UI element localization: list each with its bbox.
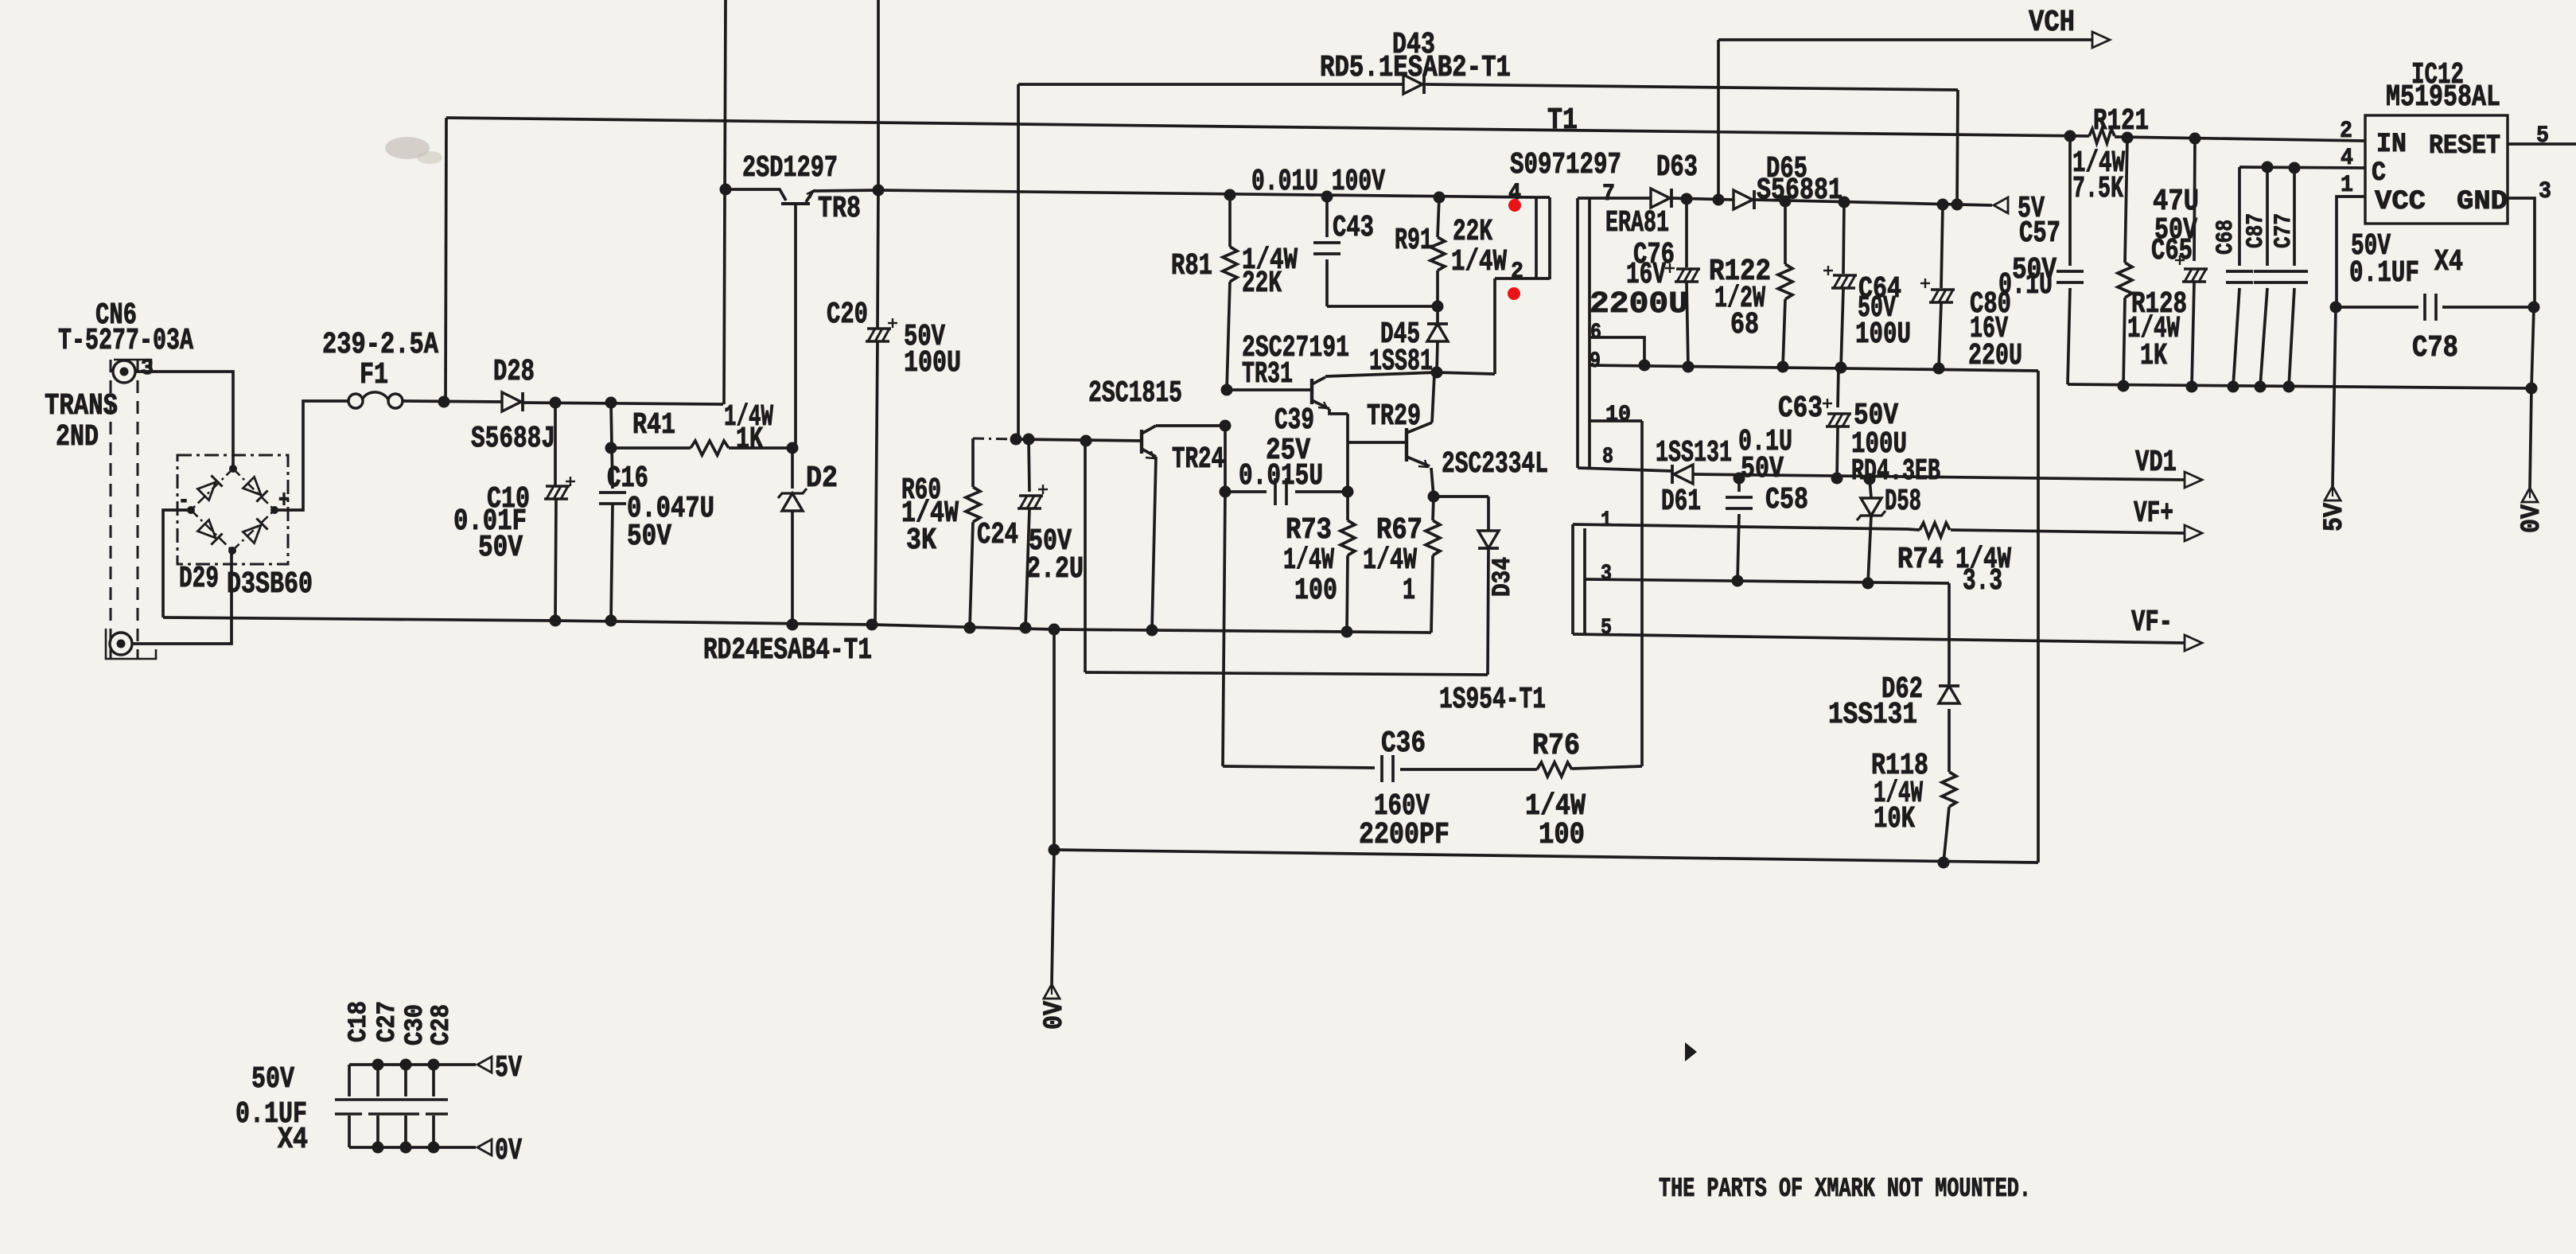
capacitor C43 0.01U 100V [1325, 197, 1329, 237]
node D43 branch [1010, 434, 1022, 446]
svg-text:C43: C43 [1333, 211, 1374, 245]
bridge diamond wires [191, 469, 233, 510]
svg-text:C63: C63 [1778, 391, 1823, 426]
svg-text:100U: 100U [904, 346, 961, 380]
svg-text:3: 3 [141, 356, 154, 381]
svg-text:1K: 1K [736, 423, 763, 457]
svg-text:VCC: VCC [2375, 187, 2426, 217]
svg-text:C: C [2372, 158, 2386, 189]
svg-text:1SS131: 1SS131 [1656, 436, 1732, 470]
svg-text:1/4W: 1/4W [1283, 543, 1334, 578]
capacitor C16 0.047U 50V [611, 403, 613, 489]
arrow VD1 [2185, 472, 2202, 488]
node C43 top [1321, 191, 1333, 203]
node bank b1 [372, 1142, 384, 1154]
node C16/R41 [605, 397, 617, 409]
arrow 0V down [2522, 488, 2538, 502]
node rail D2 [787, 619, 799, 631]
wire T1 pin7 [1578, 197, 1651, 200]
wire T1 pin5 / VF- line [1573, 634, 2185, 643]
wire pin3 line corner down [1948, 583, 1951, 684]
capacitor C68 [2238, 167, 2241, 266]
svg-text:3: 3 [1601, 562, 1612, 586]
svg-text:C77: C77 [2271, 213, 2298, 248]
node rail R122 [1777, 361, 1789, 373]
wire TR31 collector to D45 node [1325, 372, 1437, 376]
wire bridge minus to 0V rail [163, 510, 191, 617]
svg-text:68: 68 [1730, 308, 1759, 342]
bank plates top [335, 1098, 448, 1100]
svg-text:1SS131: 1SS131 [1828, 698, 1917, 732]
svg-text:F1: F1 [360, 358, 388, 392]
wire 0V arrow stem right [2530, 388, 2531, 488]
svg-text:C39: C39 [1274, 403, 1314, 438]
node TR31 base / R81 [1221, 384, 1233, 396]
resistor R74 3.3 1/4W on VF+ line [1908, 529, 1920, 530]
node R41 tap [605, 442, 617, 454]
wire D34 to TR24 base column [1085, 672, 1488, 675]
svg-text:10: 10 [1605, 403, 1631, 427]
node TR29 emitter / R67 [1428, 491, 1440, 503]
transformer T1 core / secondary winding upper [1576, 198, 1579, 468]
node pin6/pin9 [1639, 360, 1651, 372]
svg-text:C36: C36 [1381, 726, 1426, 761]
node bridge left [187, 506, 195, 514]
wire riser x=1104 (off-page top) [877, 0, 880, 190]
wire TR29 collector to pin2 node [1434, 372, 1437, 374]
svg-text:R121: R121 [2093, 104, 2149, 138]
svg-text:220U: 220U [1968, 339, 2022, 373]
node rail C24 [1020, 622, 1032, 634]
svg-text:D29: D29 [179, 562, 219, 596]
wire D28 to TR8 riser [523, 403, 723, 404]
svg-text:2.2U: 2.2U [1026, 552, 1084, 586]
svg-text:X4: X4 [278, 1123, 308, 1157]
svg-text:50V: 50V [627, 520, 671, 554]
svg-text:R91: R91 [1395, 224, 1433, 258]
bridge diode D29b [243, 477, 267, 501]
bridge diode D29d [243, 518, 267, 543]
svg-text:2200U: 2200U [1590, 287, 1688, 321]
svg-text:D34: D34 [1488, 557, 1517, 597]
node R122 top [1780, 196, 1792, 208]
node C77 top [2289, 162, 2301, 174]
svg-text:50V: 50V [478, 531, 523, 565]
node D43 join [1951, 199, 1963, 211]
wire D63 to D65 [1671, 198, 1734, 200]
node C24 top [1023, 434, 1035, 446]
wire TR8 to T1 pin4 [878, 190, 1536, 197]
node C10 [550, 397, 562, 409]
connector CN6 T-5277-03A [110, 360, 112, 659]
node C39 right / R73 top [1342, 486, 1354, 498]
capacitor C87 [2266, 167, 2269, 266]
svg-text:1K: 1K [2140, 339, 2167, 373]
wire fuse to D28 [403, 401, 502, 402]
svg-text:C87: C87 [2243, 213, 2270, 248]
svg-text:C18: C18 [344, 1001, 373, 1042]
svg-text:1: 1 [2341, 172, 2353, 199]
svg-text:22K: 22K [1453, 215, 1492, 249]
node bottom run left [1049, 844, 1060, 856]
svg-text:RD5.1ESAB2-T1: RD5.1ESAB2-T1 [1320, 51, 1511, 85]
diode D61 1SS131 [1671, 465, 1674, 484]
wire VCH riser [1717, 40, 1720, 200]
svg-text:C68: C68 [2212, 220, 2239, 255]
svg-text:2ND: 2ND [56, 420, 99, 454]
resistor R60 3K 1/4W [971, 438, 975, 487]
svg-text:5V: 5V [2320, 502, 2350, 532]
node rail C64/C63 [1835, 362, 1847, 374]
svg-text:8: 8 [1602, 445, 1613, 469]
capacitor C10 0.01F 50V [554, 403, 557, 485]
node bridge right [270, 506, 278, 514]
svg-text:C20: C20 [827, 298, 868, 332]
wire IC12 pin3 GND down [2508, 198, 2535, 307]
transistor TR24 2SC1815 [1140, 430, 1143, 454]
svg-text:3: 3 [2539, 178, 2551, 205]
node rail TR24 emitter [1146, 625, 1158, 637]
node bridge top [229, 465, 237, 473]
wire D43 top run [1018, 83, 1403, 86]
wire riser to top rail [446, 118, 446, 402]
wire 0V rail primary [163, 617, 1431, 633]
node C76 top [1681, 193, 1693, 205]
phase dot pin2 (red) [1508, 287, 1520, 300]
svg-text:1: 1 [1601, 508, 1612, 533]
fuse F1 239-2.5A [348, 394, 363, 408]
wire base row [1016, 439, 1142, 441]
mark small triangle [1685, 1042, 1697, 1061]
svg-text:THE PARTS OF XMARK NOT MOUNTED: THE PARTS OF XMARK NOT MOUNTED. [1659, 1174, 2031, 1205]
wire 0V drop to bottom run [1053, 629, 1056, 850]
wire T1 pin8 [1578, 468, 1672, 471]
wire R76 to T1 pin10 [1640, 421, 1644, 766]
svg-text:C24: C24 [977, 518, 1018, 552]
svg-text:RD4.3EB: RD4.3EB [1851, 454, 1940, 489]
svg-text:R73: R73 [1286, 513, 1332, 547]
node C58 bottom on pin3 line [1732, 575, 1744, 587]
capacitor C20 100U 50V [877, 190, 878, 328]
node main rail / top feed [438, 396, 450, 408]
svg-text:1S954-T1: 1S954-T1 [1439, 683, 1546, 717]
node rail C68 [2228, 381, 2239, 393]
node C65 top [2189, 133, 2201, 145]
capacitor C63 0.1U 50V [1838, 368, 1839, 407]
svg-text:1/4W: 1/4W [1451, 245, 1507, 279]
wire IC12 pin4 row [2239, 167, 2365, 168]
svg-text:0.01U 100V: 0.01U 100V [1251, 165, 1385, 199]
svg-text:2SD1297: 2SD1297 [742, 151, 838, 185]
wire T1 pin1 / VF+ line [1573, 524, 1908, 529]
svg-text:0.1UF: 0.1UF [2349, 256, 2419, 290]
svg-text:C78: C78 [2412, 331, 2458, 365]
node rail C10 [550, 615, 562, 627]
svg-text:RESET: RESET [2429, 131, 2500, 162]
arrow VCH [2092, 32, 2110, 48]
zener diode D2 RD24ESAB4-T1 [791, 448, 794, 489]
node D58 bottom on pin3 line [1862, 578, 1874, 590]
node bank b3 [428, 1142, 440, 1154]
resistor R41 1K 1/4W [611, 446, 691, 450]
capacitor C39 0.015U 25V [1225, 490, 1267, 493]
svg-text:R41: R41 [632, 408, 675, 442]
svg-text:0.1U: 0.1U [1998, 268, 2053, 302]
svg-text:R76: R76 [1532, 729, 1580, 763]
wire D65 to 5V arrow [1754, 200, 1992, 205]
svg-text:5V: 5V [495, 1051, 522, 1085]
svg-text:GND: GND [2457, 187, 2508, 217]
svg-text:TR24: TR24 [1172, 442, 1224, 477]
svg-text:2SC1815: 2SC1815 [1088, 376, 1182, 411]
node C78 right [2528, 302, 2540, 313]
capacitor bank bottom wire [349, 1146, 476, 1149]
node R128 top [2122, 132, 2134, 144]
node rail pin3 [2526, 383, 2538, 395]
svg-text:3K: 3K [906, 524, 936, 558]
resistor R122 68 1/2W [1784, 201, 1787, 264]
wire T1 pin10 [1590, 419, 1642, 423]
wire 0V arrow stem [1052, 850, 1054, 984]
svg-text:TRANS: TRANS [45, 389, 118, 423]
bridge diode D29a [197, 475, 222, 500]
node R91/C43/D45 [1432, 301, 1444, 313]
resistor R76 100 1/4W [1537, 762, 1572, 777]
svg-text:1: 1 [1403, 574, 1415, 608]
svg-text:100U: 100U [1855, 317, 1911, 352]
svg-text:9: 9 [1590, 349, 1601, 374]
arrow 5V down [2325, 486, 2341, 500]
wire riser x=912 (off-page top) [724, 0, 726, 404]
svg-text:R81: R81 [1171, 249, 1212, 283]
wire bridge plus to fuse [274, 401, 348, 510]
wire TR31 base [1227, 388, 1312, 391]
arrow VF+ [2185, 525, 2202, 541]
arrow 0V bank [477, 1139, 492, 1155]
svg-text:50V: 50V [251, 1062, 294, 1096]
svg-text:3.3: 3.3 [1963, 564, 2002, 598]
svg-text:1/4W: 1/4W [1363, 543, 1417, 578]
resistor R118 10K 1/4W [1948, 709, 1951, 772]
svg-text:2SC2334L: 2SC2334L [1442, 447, 1548, 481]
phase dot pin4 (red) [1508, 199, 1521, 212]
diode D45 1SS81 [1436, 306, 1439, 323]
node C80 top [1937, 199, 1949, 211]
node TR8 base [720, 184, 732, 196]
svg-text:5: 5 [2536, 123, 2549, 150]
diode D28 S5688J [502, 392, 521, 411]
transistor TR29 2SC2334L [1405, 428, 1408, 461]
svg-text:2: 2 [1511, 259, 1523, 286]
node rail C16 [605, 615, 617, 627]
wire D61 to VD1 [1693, 474, 2185, 480]
svg-text:C28: C28 [426, 1004, 456, 1046]
capacitor C64 100U 50V [1843, 202, 1844, 274]
node bank t1 [372, 1059, 384, 1071]
resistor R81 22K 1/4W [1228, 195, 1232, 247]
wire R81 column to C39 [1224, 426, 1227, 488]
svg-text:C58: C58 [1765, 483, 1808, 517]
node bank t2 [400, 1059, 412, 1071]
wire bottom 0V run [1054, 850, 2038, 863]
svg-text:VF+: VF+ [2134, 497, 2173, 531]
svg-text:2: 2 [2340, 118, 2352, 145]
svg-text:RD24ESAB4-T1: RD24ESAB4-T1 [703, 633, 872, 668]
capacitor C30 [404, 1065, 407, 1096]
node bank t3 [428, 1059, 440, 1071]
svg-text:0V: 0V [2517, 504, 2547, 533]
wire CN6 pin3 to bridge top [135, 372, 233, 469]
svg-text:T1: T1 [1547, 103, 1578, 138]
wire 0V rail IC12 section [2068, 384, 2531, 388]
svg-text:C30: C30 [400, 1004, 430, 1046]
node rail C76 [1683, 361, 1695, 373]
wire TR29e to D34 [1434, 495, 1488, 498]
svg-text:D3SB60: D3SB60 [227, 567, 313, 602]
svg-text:C57: C57 [2019, 216, 2060, 251]
svg-text:22K: 22K [1242, 267, 1282, 301]
wire TR24 collector link [1156, 424, 1225, 427]
svg-text:R74: R74 [1897, 543, 1944, 577]
svg-text:7.5K: 7.5K [2072, 172, 2123, 206]
svg-text:7: 7 [1602, 181, 1615, 208]
svg-text:D28: D28 [493, 355, 535, 389]
node rail R128 [2118, 380, 2130, 392]
wire CN6 bottom pin to bridge bottom [132, 551, 232, 644]
resistor R91 22K 1/4W [1438, 197, 1439, 237]
node rail R60 [964, 622, 976, 634]
node D45/TR29c/T1 pin2 [1431, 367, 1443, 379]
svg-text:VD1: VD1 [2135, 446, 2177, 480]
node TR8 collector / C20 [873, 185, 885, 197]
svg-text:T-5277-03A: T-5277-03A [58, 324, 193, 358]
svg-text:4: 4 [2341, 145, 2353, 172]
svg-text:D58: D58 [1885, 485, 1921, 519]
svg-text:ERA81: ERA81 [1605, 206, 1669, 240]
svg-text:M51958AL: M51958AL [2386, 80, 2500, 115]
svg-text:TR29: TR29 [1367, 399, 1421, 434]
diode D63 ERA81 [1651, 189, 1670, 208]
svg-text:6: 6 [1590, 321, 1601, 345]
node D58 top [1864, 473, 1876, 485]
diode D62 1SS131 [1939, 684, 1959, 687]
svg-text:C65: C65 [2151, 234, 2193, 268]
zener diode D58 RD4.3EB [1870, 479, 1871, 497]
transistor TR8 2SD1297 [726, 189, 786, 201]
wire C36 row [1223, 766, 1375, 768]
capacitor C80 220U 16V [1941, 204, 1943, 288]
svg-text:D61: D61 [1661, 485, 1701, 519]
node rail C65 [2186, 381, 2198, 393]
svg-text:50V: 50V [1741, 452, 1784, 486]
svg-text:D63: D63 [1656, 150, 1698, 185]
arrow 5V secondary [1994, 197, 2008, 213]
node R118 bottom [1938, 857, 1950, 869]
node C87 top [2262, 162, 2274, 173]
resistor R128 1K 1/4W [2125, 138, 2127, 263]
node C39 left [1220, 486, 1232, 498]
wire TR31 emitter / R73 column [1329, 409, 1348, 414]
capacitor C77 [2293, 168, 2296, 266]
diode D34 1S954-T1 [1487, 497, 1490, 530]
arrow 5V bank [477, 1057, 492, 1073]
node rail C80 [1933, 363, 1945, 375]
capacitor C18 [348, 1065, 351, 1096]
capacitor C24 2.2U 50V [1029, 439, 1029, 492]
wire base row dashdot [973, 438, 1016, 439]
svg-text:S0971297: S0971297 [1510, 148, 1621, 182]
transistor TR31 2SC27191 [1310, 379, 1313, 404]
svg-text:100: 100 [1294, 574, 1337, 608]
capacitor C57 0.1U 50V [2068, 136, 2072, 266]
transformer T1 secondary winding lower [1571, 524, 1574, 634]
svg-text:C27: C27 [372, 1001, 402, 1042]
IC U12 M51958AL box [2365, 115, 2508, 224]
resistor R67 1 1/4W [1433, 497, 1434, 520]
svg-text:C16: C16 [607, 461, 648, 496]
transformer T1 primary winding [1536, 196, 1550, 199]
svg-text:S5688J: S5688J [471, 422, 555, 456]
bridge rectifier D29 D3SB60 outline [177, 455, 288, 564]
wire T1 pin6 [1590, 337, 1644, 365]
wire IC12 pin1 VCC down [2337, 197, 2365, 307]
svg-text:X4: X4 [2434, 245, 2463, 279]
capacitor C76 2200U 16V [1685, 199, 1688, 267]
capacitor C65 47U 50V [2194, 138, 2195, 261]
node C78 left [2330, 302, 2342, 313]
wire IC12 pin5 RESET out [2508, 142, 2576, 146]
wire T1 pin3 line [1585, 579, 1949, 583]
svg-text:VCH: VCH [2029, 6, 2075, 40]
node VCH tap [1713, 194, 1725, 206]
svg-text:TR31: TR31 [1242, 357, 1293, 391]
diode D43 RD5.1ESAB2-T1 [1403, 75, 1422, 94]
diode D65 S56881 [1734, 190, 1753, 209]
wire secondary common down [2037, 371, 2040, 863]
svg-text:R67: R67 [1376, 513, 1422, 547]
svg-text:0V: 0V [495, 1134, 522, 1168]
svg-text:IN: IN [2376, 130, 2407, 160]
wire TR29 base [1348, 441, 1407, 444]
svg-text:239-2.5A: 239-2.5A [322, 328, 438, 362]
svg-text:10K: 10K [1874, 802, 1915, 836]
wire R121 to IC12 pin2 [2115, 137, 2365, 141]
node TR24 base column [1080, 435, 1092, 447]
node rail R73 [1341, 626, 1353, 638]
arrow VF- [2185, 635, 2202, 651]
node rail C87 [2255, 381, 2267, 393]
node R41/D2/TR8e [787, 442, 799, 454]
svg-text:0V: 0V [1040, 1000, 1070, 1030]
svg-text:0.015U: 0.015U [1239, 459, 1323, 493]
svg-text:5: 5 [1601, 616, 1612, 641]
resistor R121 7.5K 1/4W [2089, 129, 2115, 143]
svg-text:2200PF: 2200PF [1359, 818, 1449, 852]
capacitor C58 0.1U 50V [1737, 478, 1741, 492]
svg-text:VF-: VF- [2131, 606, 2173, 640]
node rail 0V drop [1049, 624, 1060, 636]
node C63 bottom [1831, 473, 1843, 485]
wire T1 pin8 to D61 [1671, 469, 1674, 473]
capacitor C78 0.1UF 50V [2336, 306, 2418, 309]
bridge diode D29c [197, 520, 222, 544]
node C58 top [1734, 473, 1745, 485]
svg-text:TR8: TR8 [818, 192, 861, 226]
node rail C20 [866, 619, 878, 631]
wire C43 bottom to R91 bottom [1327, 305, 1438, 308]
node TR24 collector on R81 column [1220, 420, 1232, 432]
node R91 top [1434, 192, 1446, 204]
